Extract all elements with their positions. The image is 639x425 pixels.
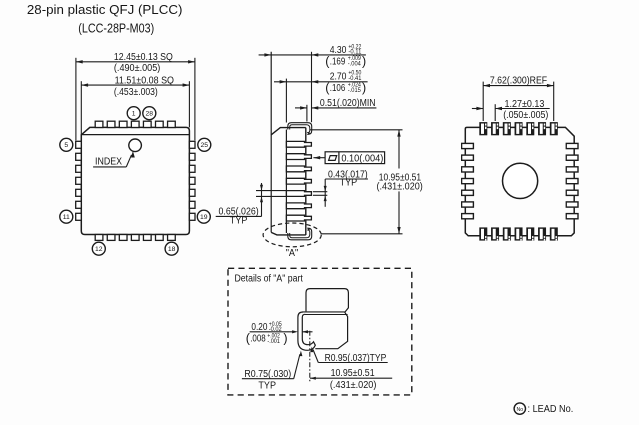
- svg-text:1: 1: [132, 111, 136, 118]
- svg-text:28: 28: [146, 111, 154, 118]
- svg-text:Details of "A" part: Details of "A" part: [235, 274, 304, 285]
- top view bevel line: [82, 134, 189, 136]
- dim 11.51 SQ: [81, 84, 189, 86]
- dim 2.70: [274, 81, 368, 83]
- bottom view top pins: [479, 122, 487, 135]
- svg-text:.106: .106: [330, 83, 346, 94]
- svg-text:0.51(.020)MIN: 0.51(.020)MIN: [320, 98, 376, 109]
- svg-text:(.050±.005): (.050±.005): [503, 110, 548, 121]
- side view top end lead: [288, 123, 312, 135]
- dim 7.62 REF: [483, 85, 554, 87]
- dim 12.45 SQ: [76, 61, 195, 63]
- index mark circle: [129, 139, 142, 152]
- svg-text:TYP: TYP: [230, 215, 248, 226]
- top view top pins: [95, 121, 103, 127]
- svg-text:INDEX: INDEX: [95, 157, 122, 168]
- top view right pins: [189, 141, 195, 148]
- svg-text:.169: .169: [330, 57, 346, 68]
- svg-text:(.453±.003): (.453±.003): [114, 87, 158, 98]
- svg-text:(.431±.020): (.431±.020): [377, 181, 423, 192]
- svg-text:"A": "A": [286, 248, 299, 259]
- bottom view bottom pins: [479, 227, 487, 240]
- svg-text:25: 25: [201, 142, 209, 149]
- svg-text:5: 5: [64, 142, 68, 149]
- dim 0.51 MIN: [295, 107, 307, 109]
- svg-text:11: 11: [63, 214, 70, 221]
- svg-text:): ): [362, 55, 366, 69]
- svg-text:(.490±.005): (.490±.005): [114, 63, 160, 74]
- svg-text:0.10(.004): 0.10(.004): [341, 153, 383, 164]
- svg-text:(.431±.020): (.431±.020): [330, 380, 377, 391]
- svg-text:28-pin plastic QFJ (PLCC): 28-pin plastic QFJ (PLCC): [27, 3, 183, 17]
- svg-text:: LEAD No.: : LEAD No.: [528, 404, 574, 415]
- pin number balloons: [127, 107, 140, 120]
- svg-text:18: 18: [168, 246, 176, 253]
- dim 0.65 TYP: [216, 215, 262, 217]
- dim 4.30: [259, 54, 366, 56]
- side view body: [270, 52, 272, 233]
- svg-text:7.62(.300)REF: 7.62(.300)REF: [490, 76, 547, 87]
- svg-text:1.27±0.13: 1.27±0.13: [505, 99, 545, 110]
- bottom view center circle: [502, 163, 537, 198]
- dim 10.95 detail: [310, 377, 392, 379]
- bottom view right pins: [566, 143, 579, 150]
- svg-text:11.51±0.08 SQ: 11.51±0.08 SQ: [115, 76, 175, 87]
- dim 0.43 TYP: [325, 178, 368, 180]
- svg-text:12: 12: [95, 246, 103, 253]
- detail lead outer and tip: [298, 312, 315, 350]
- side view leads comb: [286, 141, 311, 147]
- svg-text:No: No: [516, 407, 523, 413]
- svg-text:12.45±0.13 SQ: 12.45±0.13 SQ: [114, 52, 173, 63]
- middle ext lines: [285, 79, 287, 123]
- svg-text:): ): [283, 332, 287, 346]
- svg-text:4.30: 4.30: [330, 45, 347, 56]
- details box border: [228, 268, 412, 395]
- svg-text:2.70: 2.70: [330, 72, 347, 83]
- svg-text:TYP: TYP: [258, 381, 276, 392]
- top view left pins: [76, 141, 82, 148]
- flatness frame: [313, 157, 325, 159]
- top view body outline: [81, 127, 189, 234]
- svg-text:): ): [362, 81, 366, 95]
- detail A ellipse: [263, 223, 321, 247]
- bottom view left pins: [461, 143, 474, 150]
- svg-text:19: 19: [200, 214, 208, 221]
- detail body outline: [306, 289, 348, 349]
- bottom view body outline: [465, 127, 574, 235]
- detail centerline: [309, 331, 311, 382]
- svg-text:TYP: TYP: [340, 178, 358, 189]
- svg-text:-.004: -.004: [348, 61, 362, 68]
- detail body bottom lines: [303, 311, 345, 313]
- svg-text:-.001: -.001: [267, 338, 280, 345]
- svg-text:(LCC-28P-M03): (LCC-28P-M03): [78, 21, 154, 35]
- svg-text:-.015: -.015: [348, 87, 362, 94]
- svg-text:10.95±0.51: 10.95±0.51: [331, 368, 375, 379]
- side view bottom end lead: [288, 228, 312, 240]
- dim 1.27: [472, 108, 483, 110]
- dim 10.95 middle: [310, 129, 403, 131]
- top view bottom pins: [95, 235, 103, 241]
- lead no legend: [514, 403, 525, 414]
- svg-text:.008: .008: [250, 334, 266, 345]
